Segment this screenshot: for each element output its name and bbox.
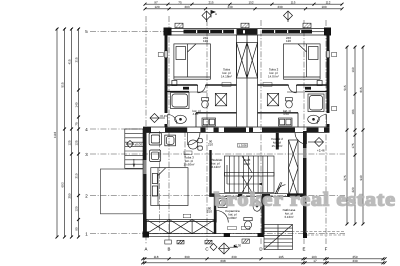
svg-text:broker real estate: broker real estate	[214, 189, 396, 210]
bathroom north wall left	[168, 91, 190, 93]
roof vent box 2	[241, 23, 249, 28]
svg-text:210: 210	[207, 210, 212, 214]
grid line F	[325, 20, 327, 244]
washbasin right	[308, 115, 320, 123]
dark box right of diamond	[242, 239, 250, 243]
BOTTOM DIMENSION CHAIN	[143, 259, 384, 263]
grid line B	[168, 16, 170, 244]
wc left unit	[202, 98, 209, 108]
grid labels left 5..1	[85, 29, 88, 236]
svg-text:B: B	[168, 247, 171, 252]
corridor door arc to lower left	[188, 133, 201, 146]
top wall window mullion gaps right	[274, 30, 301, 33]
svg-text:230: 230	[352, 259, 357, 263]
column bottom far right	[303, 233, 307, 238]
svg-text:D: D	[259, 247, 262, 252]
exterior stairs bottom right	[264, 225, 293, 250]
top wall center party segment	[237, 29, 258, 35]
window size label right wall 2	[332, 107, 337, 111]
soba3 ref box	[184, 151, 192, 155]
level marker +2.30 bottom	[210, 243, 238, 254]
radiator bar left bedroom	[183, 87, 189, 90]
svg-text:175: 175	[351, 143, 355, 148]
installation shaft left	[215, 93, 226, 105]
svg-text:+0.15: +0.15	[160, 114, 168, 118]
top wall window mullion gaps left	[196, 30, 223, 33]
shower right unit	[308, 94, 324, 112]
entry level marker left	[150, 114, 165, 123]
armchair 1 soba3	[149, 133, 161, 145]
GRID LINES (dash-dot)	[90, 16, 345, 244]
dining table round soba3	[188, 139, 202, 151]
svg-text:140: 140	[75, 102, 79, 107]
svg-text:100: 100	[321, 5, 326, 9]
grid line C	[206, 20, 208, 244]
svg-text:6.12m²: 6.12m²	[212, 165, 221, 169]
grid line 4	[90, 128, 145, 130]
aux dashed vertical 2	[184, 131, 186, 167]
svg-text:120: 120	[75, 206, 79, 211]
section marker top 2	[284, 11, 293, 22]
interior stairs	[225, 156, 275, 193]
bathroom north wall right	[305, 91, 327, 93]
svg-text:±0.00: ±0.00	[135, 143, 143, 147]
small label box soba3 foot	[183, 214, 191, 218]
bathroom/corridor wall left	[196, 112, 237, 114]
grid line E	[303, 20, 305, 244]
stair enclosure west wall	[209, 150, 211, 197]
balcony door level marker right	[308, 138, 324, 147]
top wall window band soba2	[262, 30, 312, 34]
wall stub below band right	[276, 133, 279, 150]
stairs count labels	[244, 158, 251, 166]
svg-text:415: 415	[68, 59, 72, 64]
open terrace left	[100, 169, 143, 214]
svg-text:230: 230	[231, 255, 236, 259]
top wall corner column left	[164, 28, 172, 36]
window size label right wall 1	[332, 53, 337, 57]
label box below terrace 2	[205, 240, 212, 244]
soba1 label	[221, 68, 232, 79]
svg-text:97: 97	[154, 0, 158, 4]
side table soba3	[165, 135, 176, 146]
bedroom/bathroom divider wall left unit	[165, 84, 237, 86]
roof vent box 1	[175, 23, 183, 28]
hodnik1 label left	[193, 109, 201, 116]
hodnik2 label	[271, 137, 283, 148]
bathroom/corridor wall right	[258, 112, 299, 114]
washing machine lower bathroom	[218, 199, 227, 208]
installation shaft right	[267, 93, 278, 105]
svg-text:160: 160	[351, 67, 355, 72]
svg-text:603: 603	[61, 182, 65, 187]
svg-text:A: A	[145, 247, 148, 252]
shaft X right of party wall	[247, 43, 258, 79]
bedroom/bathroom divider wall right unit	[258, 84, 330, 86]
svg-text:390: 390	[184, 255, 189, 259]
X-column right of stairs	[289, 140, 299, 197]
svg-text:215: 215	[208, 0, 213, 4]
svg-text:210: 210	[75, 173, 79, 178]
door size label hodnik	[208, 140, 213, 147]
svg-text:1.0.06: 1.0.06	[238, 143, 247, 147]
svg-text:+2.46: +2.46	[317, 149, 325, 153]
bed soba1	[172, 44, 211, 86]
bed soba3	[151, 168, 188, 206]
hodnik1 label right	[283, 109, 291, 116]
dashed terrace boundary right (natkrivena terasa)	[265, 232, 346, 236]
svg-text:203: 203	[184, 5, 189, 9]
grid line 2	[90, 195, 345, 197]
svg-text:120: 120	[203, 39, 208, 43]
bathtub left unit	[171, 93, 190, 109]
right exterior wall upper	[327, 29, 330, 128]
svg-text:4.68m²: 4.68m²	[228, 216, 237, 220]
TOP DIMENSION CHAIN	[145, 4, 342, 9]
vanity 2 basins right corridor	[279, 118, 293, 126]
door label box lower 2	[242, 226, 250, 230]
grid line 5	[90, 31, 166, 33]
svg-text:120: 120	[154, 5, 159, 9]
svg-text:75: 75	[75, 122, 79, 126]
kupaonica label	[225, 209, 240, 220]
entry porch steps	[125, 129, 143, 168]
wall south of stairs	[209, 194, 303, 197]
svg-text:E: E	[303, 247, 306, 252]
svg-text:9x17: 9x17	[244, 162, 251, 166]
roof vent box 3	[303, 23, 311, 28]
svg-text:250: 250	[68, 193, 72, 198]
shaft X left of party wall	[237, 43, 248, 79]
svg-text:195: 195	[278, 255, 283, 259]
svg-text:240: 240	[227, 5, 232, 9]
svg-text:118: 118	[154, 255, 159, 259]
svg-text:1118: 1118	[53, 132, 57, 139]
svg-text:230: 230	[277, 5, 282, 9]
top exterior wall outline	[165, 29, 332, 36]
stairs direction arrow	[227, 165, 262, 186]
soba3 label	[183, 156, 194, 167]
svg-text:15.60m²: 15.60m²	[183, 163, 194, 167]
column bottom mid	[224, 233, 230, 237]
bedroom door arc right unit	[289, 85, 297, 93]
svg-text:125: 125	[75, 140, 79, 145]
svg-text:575: 575	[343, 175, 347, 180]
corner column bottom-left	[143, 232, 150, 238]
svg-text:120: 120	[286, 39, 291, 43]
svg-text:940: 940	[359, 175, 363, 180]
washbasin lower bathroom	[253, 201, 261, 212]
radiator bar right bedroom	[305, 87, 311, 90]
svg-text:698: 698	[220, 259, 225, 263]
party wall verticals	[237, 35, 258, 127]
terrace pergola X-lattice band	[147, 220, 216, 234]
lower block right exterior wall	[303, 131, 307, 238]
small box above B	[165, 240, 172, 244]
grid line A	[145, 16, 147, 244]
bathroom east wall lower	[262, 197, 265, 234]
stubiste label	[212, 158, 223, 169]
svg-text:125: 125	[68, 140, 72, 145]
svg-text:C: C	[205, 247, 208, 252]
door arc hodnik to hall	[276, 182, 286, 195]
svg-text:4.50: 4.50	[283, 112, 289, 116]
svg-text:75: 75	[178, 0, 182, 4]
svg-text:14.18m²: 14.18m²	[221, 75, 232, 79]
bed soba2	[284, 44, 323, 86]
entry door arc left wall	[168, 115, 178, 125]
entry door arc right wall	[317, 115, 327, 125]
door size label kupaonica	[207, 207, 212, 214]
bottom terrace edge double line	[143, 234, 264, 237]
grid line D	[260, 20, 262, 244]
svg-text:90: 90	[75, 227, 79, 231]
door arc lower bathroom	[216, 211, 228, 223]
vanity 2 basins left corridor	[202, 118, 216, 126]
hodnik2 ref box	[238, 144, 248, 148]
bathroom west wall lower	[214, 197, 217, 234]
armchair 2 soba3	[150, 150, 161, 162]
washbasin left	[175, 115, 187, 123]
svg-text:A: A	[215, 12, 217, 16]
svg-text:515: 515	[343, 85, 347, 90]
aux dashed vertical 1	[159, 131, 161, 232]
svg-text:112: 112	[326, 0, 331, 4]
top wall corner column right	[324, 28, 331, 36]
window size label left wall	[158, 53, 163, 57]
svg-text:F: F	[325, 247, 328, 252]
natkrivena terasa label	[283, 208, 296, 219]
top wall window band soba1	[184, 30, 235, 34]
wc lower bathroom	[244, 218, 252, 230]
grid labels bottom A..F	[145, 247, 328, 252]
window label soba1	[203, 36, 208, 43]
svg-text:+2.30: +2.30	[234, 244, 242, 248]
section marker A top	[202, 11, 215, 23]
RIGHT DIMENSION CHAIN	[347, 46, 363, 224]
left exterior wall upper	[165, 29, 168, 128]
LEFT DIMENSION CHAIN	[57, 28, 79, 237]
lower block left exterior wall	[143, 127, 147, 238]
svg-text:115: 115	[291, 0, 296, 4]
svg-text:4.85: 4.85	[193, 112, 199, 116]
svg-text:15.73m²: 15.73m²	[271, 144, 282, 148]
grid line 3	[90, 153, 345, 155]
svg-text:815: 815	[359, 87, 363, 92]
soba2 label	[268, 68, 279, 79]
label box below terrace 1	[177, 240, 184, 244]
svg-text:515: 515	[61, 82, 65, 87]
mid separating wall band (upper/lower block)	[143, 127, 330, 133]
soba1 ref box	[222, 83, 231, 87]
soba2 ref box	[263, 83, 272, 87]
svg-text:210: 210	[208, 143, 213, 147]
door label box lower 1	[228, 226, 236, 230]
column bottom right of terrace	[258, 233, 264, 237]
mid band dark segments	[143, 127, 330, 133]
window label soba2	[286, 36, 291, 43]
svg-text:17: 17	[313, 259, 317, 263]
svg-text:315: 315	[75, 57, 79, 62]
svg-text:152: 152	[248, 0, 253, 4]
svg-text:14.07m²: 14.07m²	[268, 75, 279, 79]
wc right unit	[286, 98, 293, 108]
grid line 1	[90, 233, 345, 235]
svg-text:3.13m²: 3.13m²	[284, 215, 293, 219]
porch level diamond	[127, 141, 134, 148]
bedroom door arc left unit	[198, 85, 206, 93]
corridor door arc to hodnik2 right	[295, 133, 307, 145]
svg-text:186: 186	[351, 109, 355, 114]
